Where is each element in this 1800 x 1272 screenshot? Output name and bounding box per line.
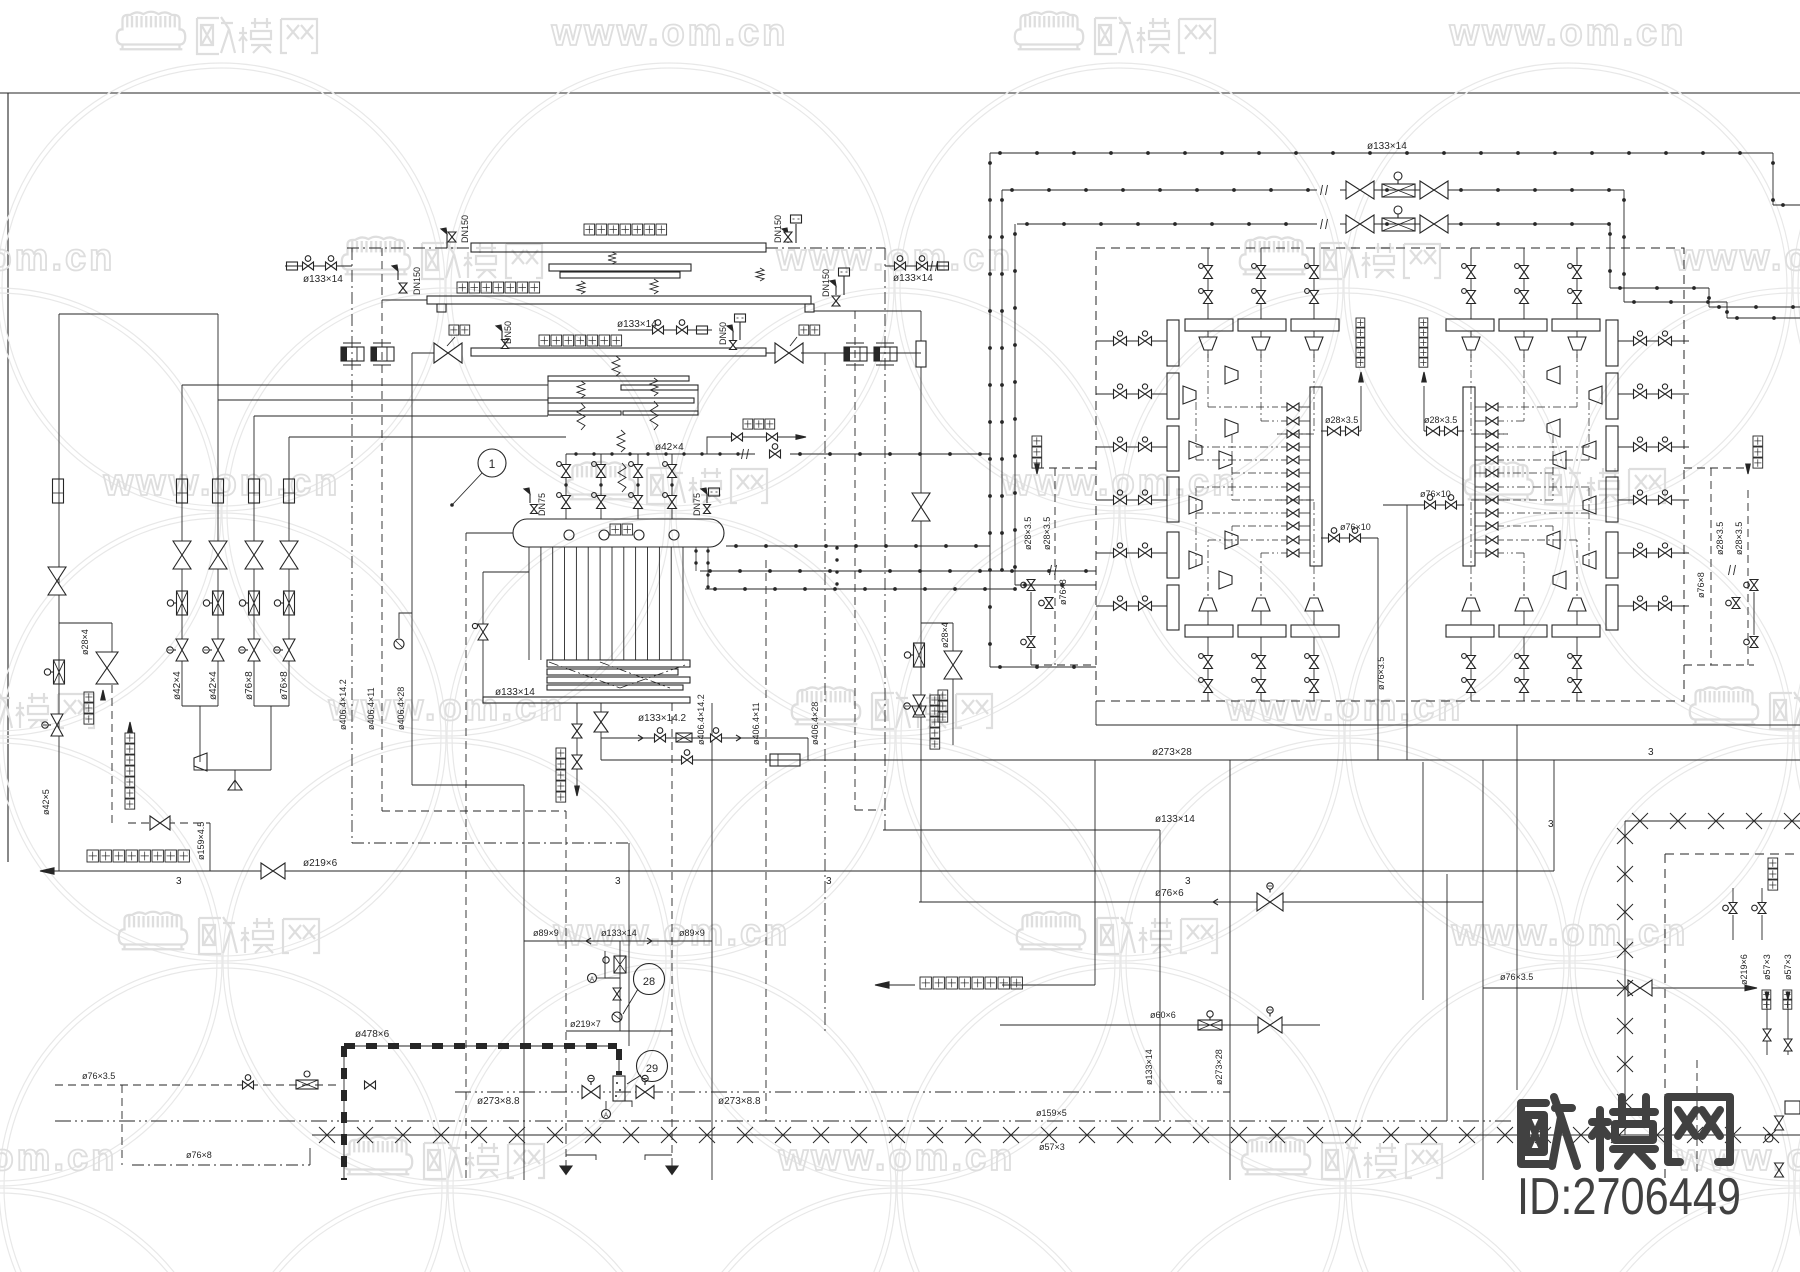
instrument on column 3 xyxy=(249,479,260,503)
middle bowtie column xyxy=(1287,403,1293,411)
motor valve on column 3 xyxy=(248,639,260,650)
drain riser 疏水去定排 xyxy=(1423,386,1425,431)
pipe ø76×3.5 left y=1085 xyxy=(55,1084,341,1086)
dotted feeder lines drum to right risers xyxy=(726,545,990,547)
svg-text:ø57×3: ø57×3 xyxy=(1762,954,1772,980)
wire ø219 riser to ø273 junction xyxy=(1553,760,1555,871)
svg-text:ø219×7: ø219×7 xyxy=(570,1019,601,1029)
hourglass valve on column 4 xyxy=(280,541,298,555)
motor valve on x=921 xyxy=(913,695,925,706)
restrictor device balloon 29 xyxy=(613,1076,625,1101)
valve block side header (segmented) xyxy=(1167,320,1179,366)
middle collection header xyxy=(1463,387,1475,566)
svg-text:ø42×4: ø42×4 xyxy=(655,442,684,453)
vent DN150 on right connection xyxy=(835,286,837,295)
valve block bottom columns xyxy=(1576,637,1578,701)
funnels above bottom bars xyxy=(1199,598,1217,611)
drain bypass loop xyxy=(600,703,602,738)
svg-text:ø76×6: ø76×6 xyxy=(1155,888,1184,899)
svg-text:www.om.cn: www.om.cn xyxy=(1674,237,1800,279)
svg-text:ø42×4: ø42×4 xyxy=(172,671,183,700)
riser ø273×28 x=1230 xyxy=(1229,760,1231,1180)
dash-dot collectors inside block xyxy=(1207,354,1209,407)
label 反冲洗 right vertical xyxy=(938,690,948,700)
valve block bottom bars xyxy=(1185,625,1233,637)
drain line ø76×10 xyxy=(1321,537,1378,539)
svg-text:ø406.4×11: ø406.4×11 xyxy=(751,702,761,745)
steam drum 汽包 xyxy=(513,519,724,547)
svg-text:ø133×14: ø133×14 xyxy=(1155,814,1195,825)
pipe loop line3 y=224 xyxy=(1017,223,1317,225)
svg-text:ø406.4×28: ø406.4×28 xyxy=(810,702,820,745)
svg-text:ø57×3: ø57×3 xyxy=(1783,954,1793,980)
riser x=825 dash-dot xyxy=(824,353,826,1035)
valve pair on row xyxy=(1114,443,1121,452)
vent DN50 right on superheater header xyxy=(732,331,734,340)
mill inner piping xyxy=(1696,1060,1698,1177)
svg-text:DN50: DN50 xyxy=(718,322,728,345)
svg-text:ø273×28: ø273×28 xyxy=(1214,1049,1224,1085)
middle collection header xyxy=(1310,387,1322,566)
svg-text:ø28×3.5: ø28×3.5 xyxy=(1042,517,1052,550)
svg-text:www.om.cn: www.om.cn xyxy=(551,12,789,54)
wire x=920 drain to ø76×6 xyxy=(912,706,926,715)
instrument line y=941 xyxy=(524,940,712,942)
svg-text:ø133×14: ø133×14 xyxy=(1144,1049,1154,1085)
wire riser column 1 to bundle xyxy=(181,385,183,706)
valve group on line2 xyxy=(1346,181,1360,199)
svg-text:ø406.4×14.2: ø406.4×14.2 xyxy=(696,694,706,745)
pipe drain collect y=725 xyxy=(1096,724,1800,726)
label 放水去定排 right vertical xyxy=(930,695,940,705)
slide valve far-left xyxy=(54,660,65,684)
svg-text:ø133×14: ø133×14 xyxy=(303,274,343,285)
pipe ø219×6 main y=871 xyxy=(54,870,1554,872)
svg-text:ø57×3: ø57×3 xyxy=(1039,1142,1065,1152)
svg-text:ø76×10: ø76×10 xyxy=(1340,522,1371,532)
label 磨煤机 vertical xyxy=(1768,858,1778,868)
block A bottom frame link xyxy=(1095,701,1097,725)
coil bottom header xyxy=(483,697,690,703)
svg-text:ø89×9: ø89×9 xyxy=(533,928,559,938)
wire columns 1-2 junction xyxy=(182,705,218,707)
svg-text:ø133×14: ø133×14 xyxy=(1367,141,1407,152)
drain funnel bottom x=566 xyxy=(560,1166,572,1174)
motor valve on column 1 xyxy=(176,639,188,650)
wire dashed y=811 xyxy=(382,810,566,812)
slide valve on column 4 xyxy=(284,591,295,615)
motor valve on column 4 xyxy=(283,639,295,650)
side funnels mid xyxy=(1589,386,1602,404)
svg-text:www.om.cn: www.om.cn xyxy=(0,237,115,279)
drain line ø28×3.5 xyxy=(1321,430,1361,432)
plug valve 堵阀 right xyxy=(766,352,775,354)
svg-text:ø76×3.5: ø76×3.5 xyxy=(82,1071,115,1081)
valve pair on row xyxy=(1114,549,1121,558)
wire reheater inlet header right connection y=311 xyxy=(814,310,921,312)
wire coil left drop xyxy=(483,571,529,573)
economizer coil xyxy=(547,660,690,667)
wire x=122 link xyxy=(121,1085,123,1165)
vent DN75 left of drum xyxy=(529,494,531,503)
svg-text:ø406.4×11: ø406.4×11 xyxy=(366,687,376,730)
riser dotted x=1015 xyxy=(1014,224,1016,585)
long risers right xyxy=(1422,762,1424,1000)
svg-text:ø219×6: ø219×6 xyxy=(303,858,338,869)
wire riser column 4 to bundle xyxy=(288,437,290,706)
valve on ø219×6 xyxy=(261,863,273,879)
svg-text:ø89×9: ø89×9 xyxy=(679,928,705,938)
mill valves xyxy=(1729,903,1737,909)
hourglass valve on column 1 xyxy=(173,541,191,555)
valve block side rows xyxy=(1618,340,1689,342)
funnels under top bars xyxy=(1199,337,1217,350)
wire reheater inlet header left connection xyxy=(382,299,427,301)
labels A磨 B磨 xyxy=(1762,990,1771,999)
drain funnel bottom x=672 xyxy=(666,1166,678,1174)
svg-text:ø273×8.8: ø273×8.8 xyxy=(718,1096,761,1107)
drawing frame top border xyxy=(0,92,1800,94)
valve pair on row xyxy=(1114,337,1121,346)
svg-text:ø42×4: ø42×4 xyxy=(208,671,219,700)
valve block top bars xyxy=(1552,319,1600,331)
funnels above bottom bars xyxy=(1568,598,1586,611)
valve pair on row xyxy=(1659,443,1666,452)
svg-text:DN75: DN75 xyxy=(537,493,547,516)
valve block top columns xyxy=(1207,248,1209,319)
riser x=629 to blowdown xyxy=(628,843,630,1046)
drawing frame left border xyxy=(7,93,9,862)
svg-text:A: A xyxy=(590,977,594,983)
hourglass valve far-left xyxy=(48,567,66,581)
svg-text:3: 3 xyxy=(1548,819,1554,830)
motor valve far-left xyxy=(51,714,63,725)
svg-text:ø159×4.5: ø159×4.5 xyxy=(196,822,206,860)
branch ø28×4 right xyxy=(921,622,953,624)
valve pair on row xyxy=(1659,602,1666,611)
riser x=566 dashed down xyxy=(565,811,567,1160)
svg-text:DN150: DN150 xyxy=(773,215,783,243)
drain line ø28×3.5 xyxy=(1424,430,1464,432)
hourglass ø28×4 xyxy=(96,652,118,668)
riser x=712 xyxy=(711,703,713,1180)
downcomer tubes xyxy=(528,547,530,660)
drain risers between blocks xyxy=(1377,538,1379,760)
svg-text:www.om.cn: www.om.cn xyxy=(553,912,791,954)
wire dash-dot y=843 to center xyxy=(352,842,629,844)
header 再热器出口集箱 (reheater outlet header) xyxy=(471,243,766,252)
stub line y=1031 xyxy=(566,1030,672,1032)
valve pair on row xyxy=(1659,390,1666,399)
blowdown drain 放水去定排 xyxy=(576,703,578,786)
slide valve on x=921 xyxy=(914,643,925,667)
valve group ø133×14 top-left xyxy=(285,265,352,267)
valve pair on row xyxy=(1659,496,1666,505)
svg-text:ø133×14: ø133×14 xyxy=(495,687,535,698)
crossed pipe vertical x=1625 xyxy=(1624,821,1626,1135)
svg-text:ø42×5: ø42×5 xyxy=(41,789,51,815)
svg-text:ID:2706449: ID:2706449 xyxy=(1517,1168,1741,1226)
svg-text:ø478×6: ø478×6 xyxy=(355,1029,390,1040)
valve block bottom columns xyxy=(1207,637,1209,701)
riser x=466 dashed from drum xyxy=(466,532,513,534)
svg-text:28: 28 xyxy=(643,976,655,988)
crossed pipe y=821 from right xyxy=(1625,820,1800,822)
vent DN150 left of reheater outlet header xyxy=(446,234,448,243)
wire dash-dot header level y=248 xyxy=(347,247,471,249)
valve group ø133×14 mid xyxy=(618,329,712,331)
valve group on line3 xyxy=(1346,215,1360,233)
riser x=672 dashed xyxy=(671,703,673,1160)
svg-text:ø28×3.5: ø28×3.5 xyxy=(1734,522,1744,555)
svg-text:ø76×8: ø76×8 xyxy=(1696,572,1706,598)
svg-text:ø133×14.2: ø133×14.2 xyxy=(638,713,687,724)
dash-dot collectors inside block xyxy=(1576,354,1578,407)
svg-text:3: 3 xyxy=(1648,747,1654,758)
svg-text:ø28×4: ø28×4 xyxy=(80,629,90,655)
valve pair on row xyxy=(1659,337,1666,346)
pipe ø273×28 y=760 xyxy=(808,759,1800,761)
mill area dashed frame xyxy=(1665,853,1800,855)
pipe ø76×3.5 to aux y=985 xyxy=(875,982,889,988)
balloon 28 xyxy=(634,964,665,995)
svg-text:DN50: DN50 xyxy=(503,321,513,344)
instrument far-left xyxy=(53,479,64,503)
drum valve grid xyxy=(565,454,567,519)
svg-text:DN150: DN150 xyxy=(460,215,470,243)
svg-text:ø406.4×28: ø406.4×28 xyxy=(396,687,406,730)
svg-text:ø159×5: ø159×5 xyxy=(1036,1108,1067,1118)
svg-text:ø273×28: ø273×28 xyxy=(1152,747,1192,758)
funnel collector left pair xyxy=(194,753,207,771)
svg-text:DN75: DN75 xyxy=(692,493,702,516)
svg-text:www.om.cn: www.om.cn xyxy=(0,1137,117,1179)
svg-text:29: 29 xyxy=(646,1063,658,1075)
svg-text:ø76×8: ø76×8 xyxy=(1058,579,1068,605)
wire riser column 3 to bundle xyxy=(253,416,255,706)
slide valve on column 2 xyxy=(213,591,224,615)
valve on drum manifold right xyxy=(770,450,776,458)
instrument on column 2 xyxy=(213,479,224,503)
riser ø133×14 x=1160 xyxy=(1159,830,1161,1121)
svg-text:1: 1 xyxy=(489,457,496,471)
svg-text:ø219×6: ø219×6 xyxy=(1739,954,1749,985)
wire riser column 2 to bundle xyxy=(217,314,219,706)
wire dashed branch 去2# y=823 xyxy=(128,822,210,824)
svg-text:ø76×10: ø76×10 xyxy=(1420,489,1451,499)
vent DN75 right of drum xyxy=(706,494,708,503)
wire ø159×4.5 drop xyxy=(209,823,211,871)
svg-text:ø133×14: ø133×14 xyxy=(601,928,637,938)
riser x=524 down xyxy=(523,785,525,1180)
svg-text:DN150: DN150 xyxy=(412,267,422,295)
svg-text:3: 3 xyxy=(826,876,832,887)
reheater bundle tubes xyxy=(549,264,691,271)
riser x=921 with valve train xyxy=(920,311,922,341)
svg-text:ø273×8.8: ø273×8.8 xyxy=(477,1096,520,1107)
valve block side rows xyxy=(1096,340,1167,342)
side funnels mid xyxy=(1183,386,1196,404)
wire ø42×4 drum top manifold xyxy=(566,453,755,455)
valve on coil left drop xyxy=(478,624,488,632)
svg-text:ø406.4×14.2: ø406.4×14.2 xyxy=(338,679,348,730)
hourglass valve on column 2 xyxy=(209,541,227,555)
svg-text:ø28×3.5: ø28×3.5 xyxy=(1715,522,1725,555)
valve pair on row xyxy=(1114,390,1121,399)
instrument on column 1 xyxy=(177,479,188,503)
wire far-left riser x=59 xyxy=(58,314,60,871)
riser x=382 dashed with flange xyxy=(381,248,383,811)
svg-text:www.om.cn: www.om.cn xyxy=(1451,912,1689,954)
backflush branch right of block B xyxy=(1684,467,1748,469)
valve block side header (segmented) xyxy=(1606,320,1618,366)
wire to header from funnels xyxy=(194,762,235,770)
hourglass valve on column 3 xyxy=(245,541,263,555)
balloon 1 callout xyxy=(478,449,506,477)
vent DN150 right of reheater outlet header xyxy=(787,234,789,243)
svg-text:www.om.cn: www.om.cn xyxy=(778,1137,1016,1179)
label 去2#机轴封供汽 vertical xyxy=(125,733,135,743)
pipe ø76×6 y=902 xyxy=(919,901,1483,903)
svg-text:ø28×3.5: ø28×3.5 xyxy=(1325,415,1358,425)
svg-text:ø133×14: ø133×14 xyxy=(617,319,657,330)
svg-text:A: A xyxy=(604,1113,608,1119)
motor valve on column 2 xyxy=(212,639,224,650)
staircase step line A xyxy=(1623,190,1625,302)
backflush line 反冲洗 above drum xyxy=(707,437,804,454)
pipe ø273×8.8 y=1092 xyxy=(455,1091,1230,1093)
valve block top bars xyxy=(1185,319,1233,331)
svg-text:ø28×3.5: ø28×3.5 xyxy=(1424,415,1457,425)
svg-text:ø28×3.5: ø28×3.5 xyxy=(1023,517,1033,550)
riser to aux PRV x=1095 xyxy=(1094,760,1096,985)
vent DN150 at reheater inlet header left xyxy=(397,271,399,280)
plug valve 堵阀 left xyxy=(412,352,434,354)
riser x=766 dashed xyxy=(765,560,767,1121)
riser x=412 solid xyxy=(411,353,413,785)
svg-text:ø28×4: ø28×4 xyxy=(940,622,950,648)
pipe loop line2 y=190 xyxy=(1002,189,1317,191)
slide valve on column 1 xyxy=(177,591,188,615)
svg-text:www.om.cn: www.om.cn xyxy=(1449,12,1687,54)
site logo 欧模网 bottom right xyxy=(1521,1097,1730,1168)
header 过热器出口集箱 (superheater outlet header) xyxy=(471,348,766,356)
drain riser 疏水去定排 xyxy=(1360,386,1362,431)
inline instrument on x=921 xyxy=(916,341,926,367)
instrument assembly with balloon 28 xyxy=(619,941,621,1031)
riser dotted x=1002 xyxy=(1001,190,1003,571)
svg-text:DN150: DN150 xyxy=(821,269,831,297)
pipe ø76×3.5 right y=988 xyxy=(1483,987,1752,989)
valve pair on row xyxy=(1659,549,1666,558)
riser dotted x=990 xyxy=(989,153,991,667)
riser x=352 dash-dot with flange xyxy=(351,248,353,843)
backflush branch left of block A xyxy=(1037,467,1096,469)
wire top loop right step xyxy=(1772,153,1774,205)
dotted line to right structure y=454 xyxy=(790,453,990,455)
hourglass valve on x=921 xyxy=(912,493,930,507)
valve pair on row xyxy=(1114,496,1121,505)
motor tap on riser x=412 xyxy=(399,613,412,638)
svg-text:www.om.cn: www.om.cn xyxy=(103,462,341,504)
pipe ø60×6 y=1025 xyxy=(1000,1024,1320,1026)
wire columns 3-4 junction xyxy=(254,705,289,707)
pipe ø133×14 top loop dotted xyxy=(990,152,1773,154)
branch 反冲洗 far-left xyxy=(59,622,112,624)
drain line ø76×10 xyxy=(1383,504,1464,506)
pipe ø133×14 y=830 xyxy=(883,829,1160,831)
svg-text:3: 3 xyxy=(176,876,182,887)
valve group ø133×14 top-right xyxy=(885,265,948,267)
middle bowtie column xyxy=(1486,403,1492,411)
label 反冲洗 vertical far-left xyxy=(84,692,94,702)
header 再热器进口集箱 (reheater inlet header) xyxy=(427,296,811,304)
svg-text:ø76×8: ø76×8 xyxy=(186,1150,212,1160)
svg-text:ø60×6: ø60×6 xyxy=(1150,1010,1176,1020)
pipe ø159×5 y=1121 xyxy=(55,1120,1514,1122)
staircase step line B xyxy=(1609,224,1611,288)
valve block top columns xyxy=(1576,248,1578,319)
arrow 接2#机组三抽管道 xyxy=(40,868,54,874)
svg-text:ø76×8: ø76×8 xyxy=(244,671,255,700)
slide valve on column 3 xyxy=(249,591,260,615)
pipe ø57×3 with crosses y=1135 xyxy=(312,1134,1800,1136)
funnels under top bars xyxy=(1568,337,1586,350)
pipe ø76×8 y=1165 xyxy=(132,1164,310,1166)
funnel up symbol xyxy=(228,780,242,790)
instrument on column 4 xyxy=(284,479,295,503)
svg-text:3: 3 xyxy=(615,876,621,887)
vent DN50 left on superheater header xyxy=(501,331,503,340)
svg-text:ø133×14: ø133×14 xyxy=(893,273,933,284)
wire dotted y=667 to block xyxy=(990,666,1096,668)
svg-text:ø76×3.5: ø76×3.5 xyxy=(1376,657,1386,690)
right risers x=855 x=885 x=921 xyxy=(854,311,856,810)
superheater bundle tubes xyxy=(548,376,689,381)
valve block bottom bars xyxy=(1552,625,1600,637)
valve matrix dashed frame xyxy=(1096,248,1684,701)
wire y=314 from left border area xyxy=(59,313,218,315)
valve pair on row xyxy=(1114,602,1121,611)
strainer on ø273 start xyxy=(770,754,800,766)
svg-text:ø76×8: ø76×8 xyxy=(279,671,290,700)
svg-text:3: 3 xyxy=(1185,876,1191,887)
wire y=785 xyxy=(412,784,524,786)
